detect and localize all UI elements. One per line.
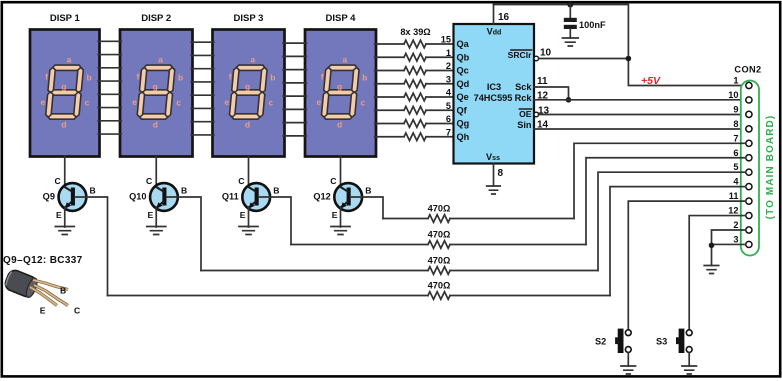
svg-text:S3: S3 [656, 337, 667, 347]
svg-text:B: B [60, 286, 66, 296]
svg-text:10: 10 [540, 48, 552, 59]
svg-text:DISP 1: DISP 1 [50, 13, 81, 24]
svg-text:c: c [85, 98, 90, 108]
svg-text:a: a [342, 55, 347, 65]
CON2 pin 10 circle and number [728, 90, 752, 103]
resistor 39 ohm in series with segment line Qb (pin 1) [375, 48, 454, 61]
transistor Q9 (BC337 NPN) [43, 176, 96, 220]
resistor 39 ohm in series with segment line Qc (pin 2) [375, 61, 454, 74]
svg-text:11: 11 [729, 191, 739, 201]
svg-text:Qd: Qd [457, 79, 470, 89]
wire CON2 pin 6 to riser x=586.0 [586, 158, 746, 245]
svg-text:470Ω: 470Ω [428, 281, 451, 291]
ground below capacitor [563, 38, 579, 46]
resistor 39 ohm in series with segment line Qa (pin 15) [375, 35, 454, 48]
ground below S2 [621, 366, 636, 374]
svg-text:Rck: Rck [515, 93, 533, 103]
svg-text:1: 1 [446, 48, 451, 58]
svg-text:C: C [330, 176, 336, 186]
svg-text:b: b [270, 73, 275, 83]
junction top rail / capacitor [567, 2, 573, 8]
svg-text:c: c [360, 98, 365, 108]
IC IC3 74HC595 shift register body [454, 24, 535, 164]
wire Rck pin 12 to CON2 pin 10 [534, 99, 746, 101]
svg-text:C: C [55, 176, 61, 186]
svg-text:c: c [176, 98, 181, 108]
wire CON2 pin 12 down to switch S3 [689, 216, 745, 330]
connector CON2 [734, 65, 761, 256]
7-segment display DISP 1 [30, 13, 100, 157]
svg-text:d: d [245, 120, 250, 130]
svg-text:e: e [316, 97, 321, 107]
svg-text:5: 5 [446, 101, 451, 111]
svg-text:2: 2 [446, 61, 451, 71]
svg-text:16: 16 [498, 12, 510, 23]
svg-text:Qg: Qg [457, 119, 470, 129]
wire DISP 3 common pin down to transistor collector [248, 157, 250, 188]
svg-text:Q9–Q12: BC337: Q9–Q12: BC337 [3, 255, 83, 266]
ground below Q9 [55, 227, 74, 235]
resistor 39 ohm in series with segment line Qh (pin 7) [375, 127, 454, 140]
svg-text:d: d [61, 120, 66, 130]
svg-text:a: a [158, 55, 163, 65]
transistor Q12 (BC337 NPN) [313, 176, 371, 220]
capacitor C 100nF [564, 5, 606, 39]
wire bus segment lines a-h between DISP2-DISP3 [191, 42, 214, 135]
wire CON2 pin 11 down to switch S2 [628, 201, 745, 330]
svg-text:6: 6 [733, 148, 738, 158]
svg-text:C: C [74, 306, 80, 316]
svg-text:4: 4 [733, 177, 739, 187]
svg-text:11: 11 [537, 76, 548, 87]
svg-text:470Ω: 470Ω [428, 230, 451, 240]
wire CON2 pin 5 to riser x=598.0 [598, 172, 746, 270]
wire Q12 base to 470 ohm row [351, 197, 383, 219]
wire CON2 pin 4 to riser x=610.0 [610, 187, 746, 296]
svg-text:15: 15 [441, 35, 451, 45]
svg-text:100nF: 100nF [579, 20, 606, 30]
svg-text:6: 6 [446, 114, 451, 124]
switch S2 (pushbutton) [595, 329, 631, 353]
svg-text:470Ω: 470Ω [428, 256, 451, 266]
CON2 pin 1 circle and number [733, 76, 752, 89]
svg-text:3: 3 [446, 74, 451, 84]
svg-text:Q11: Q11 [222, 192, 239, 202]
transistor Q11 (BC337 NPN) [222, 176, 280, 220]
svg-text:f: f [137, 72, 140, 82]
svg-text:Qf: Qf [457, 105, 468, 115]
ground below Q10 [147, 227, 166, 235]
wire S3 lower contact to ground [688, 352, 690, 366]
CON2 pin 8 circle and number [733, 119, 752, 132]
svg-text:g: g [153, 82, 158, 92]
svg-text:CON2: CON2 [734, 65, 761, 75]
svg-text:S2: S2 [595, 337, 606, 347]
svg-text:10: 10 [728, 90, 738, 100]
CON2 pin 4 circle and number [733, 177, 752, 190]
svg-text:c: c [268, 98, 273, 108]
svg-text:8: 8 [733, 119, 738, 129]
wire Q11 base to 470 ohm row [259, 197, 291, 245]
svg-text:b: b [178, 73, 183, 83]
svg-text:E: E [40, 306, 46, 316]
svg-text:DISP 2: DISP 2 [141, 13, 171, 24]
svg-text:8: 8 [498, 168, 504, 179]
svg-text:e: e [224, 97, 229, 107]
svg-text:b: b [362, 73, 367, 83]
svg-text:e: e [41, 97, 46, 107]
svg-text:1: 1 [733, 76, 738, 86]
svg-text:d: d [153, 120, 158, 130]
svg-text:74HC595: 74HC595 [474, 93, 513, 103]
CON2 pin 7 circle and number [733, 133, 752, 146]
CON2 pin 9 circle and number [733, 104, 752, 117]
svg-text:(TO MAIN BOARD): (TO MAIN BOARD) [765, 115, 776, 220]
svg-text:E: E [148, 210, 154, 220]
svg-text:2: 2 [733, 220, 738, 230]
svg-text:Q9: Q9 [43, 192, 55, 202]
ground below S3 [682, 366, 697, 374]
svg-text:g: g [61, 82, 66, 92]
wire DISP 4 common pin down to transistor collector [340, 157, 342, 188]
CON2 pin 11 circle and number [729, 191, 752, 204]
svg-text:5: 5 [733, 162, 738, 172]
svg-text:e: e [132, 97, 137, 107]
resistor 39 ohm in series with segment line Qf (pin 5) [375, 101, 454, 114]
svg-text:Qe: Qe [457, 92, 469, 102]
svg-text:Qa: Qa [457, 39, 470, 49]
resistor 39 ohm in series with segment line Qd (pin 3) [375, 74, 454, 87]
wire Q12 emitter to ground [340, 207, 342, 227]
svg-text:OE: OE [519, 109, 532, 119]
wire Q9 emitter to ground [64, 207, 66, 227]
resistor 39 ohm in series with segment line Qe (pin 4) [375, 88, 454, 101]
resistor 39 ohm in series with segment line Qg (pin 6) [375, 114, 454, 127]
svg-text:12: 12 [537, 91, 549, 102]
svg-text:B: B [365, 186, 371, 196]
svg-text:8x 39Ω: 8x 39Ω [400, 27, 430, 37]
CON2 pin 12 circle and number [728, 206, 752, 219]
resistor 470 ohm in base line of Q12 [383, 204, 574, 223]
junction +5V vertical / SRCLR wire [626, 56, 632, 62]
wire OE pin 13 to CON2 pin 9 [539, 114, 746, 116]
svg-text:14: 14 [537, 120, 549, 131]
CON2 pin 2 circle and number [733, 220, 752, 233]
svg-text:Qh: Qh [457, 132, 470, 142]
svg-text:a: a [67, 55, 72, 65]
transistor package drawing (TO-92 can with leads) [3, 268, 80, 315]
transistor Q10 (BC337 NPN) [129, 176, 187, 220]
svg-text:B: B [181, 186, 187, 196]
ground below CON2 pins 2,3 [704, 266, 719, 274]
svg-text:12: 12 [728, 206, 738, 216]
svg-text:C: C [238, 176, 244, 186]
junction pin2/pin3 [709, 243, 715, 249]
svg-text:f: f [229, 72, 232, 82]
svg-text:B: B [89, 186, 95, 196]
svg-text:d: d [337, 120, 342, 130]
svg-text:Qc: Qc [457, 66, 469, 76]
svg-text:Q12: Q12 [313, 192, 330, 202]
wire DISP 2 common pin down to transistor collector [155, 157, 157, 188]
svg-text:E: E [240, 210, 246, 220]
ground below IC3 Vss [487, 186, 501, 194]
7-segment display DISP 4 [305, 13, 376, 157]
wire CON2 pin 3 to ground [712, 244, 746, 265]
svg-text:4: 4 [446, 88, 452, 98]
resistor 470 ohm in base line of Q9 [108, 281, 611, 300]
svg-text:IC3: IC3 [487, 82, 501, 92]
wire Q11 emitter to ground [248, 207, 250, 227]
7-segment display DISP 3 [213, 13, 285, 157]
wire IC3 pin 8 Vss down to ground [493, 164, 495, 187]
resistor 470 ohm in base line of Q11 [291, 230, 586, 249]
svg-text:f: f [321, 72, 324, 82]
wire Sck pin 11 joins Rck line [534, 87, 569, 100]
svg-text:DISP 4: DISP 4 [326, 13, 357, 24]
CON2 pin 5 circle and number [733, 162, 752, 175]
CON2 pin 3 circle and number [733, 234, 752, 247]
wire CON2 pin 2 to ground junction [712, 230, 746, 245]
7-segment display DISP 2 [120, 13, 193, 157]
wire Q9 base to 470 ohm row [75, 197, 108, 296]
svg-text:Sin: Sin [517, 120, 532, 130]
wire SRCLR pin 10 to +5V rail [539, 58, 629, 60]
wire S2 lower contact to ground [627, 352, 629, 366]
wire Sin pin 14 to CON2 pin 8 [534, 128, 746, 130]
svg-text:3: 3 [733, 234, 738, 244]
svg-text:B: B [273, 186, 279, 196]
svg-text:a: a [250, 55, 255, 65]
wire Q10 emitter to ground [155, 207, 157, 227]
wire bus segment lines a-h between DISP3-DISP4 [283, 43, 306, 136]
svg-text:Qb: Qb [457, 52, 470, 62]
svg-text:E: E [56, 210, 62, 220]
svg-text:7: 7 [733, 133, 738, 143]
IC3 pin 10 SRCLR (active low) with inversion bubble [508, 50, 539, 61]
ground below Q11 [239, 227, 258, 235]
svg-text:C: C [146, 176, 152, 186]
IC3 pin 13 OE (active low) with inversion bubble [519, 109, 539, 119]
svg-text:f: f [45, 72, 48, 82]
svg-text:Q10: Q10 [129, 192, 146, 202]
switch S3 (pushbutton) [656, 329, 692, 353]
svg-text:+5V: +5V [641, 75, 661, 87]
svg-text:b: b [86, 73, 91, 83]
svg-text:DISP 3: DISP 3 [234, 13, 264, 24]
svg-text:g: g [337, 82, 342, 92]
wire IC3 pin 16 Vdd up to +5V rail [493, 5, 495, 25]
svg-text:SRClr: SRClr [508, 50, 533, 60]
wire +5V rail: Vdd top rail across to CON2 pin 1 [494, 5, 746, 86]
ground below Q12 [331, 227, 350, 235]
svg-text:E: E [332, 210, 338, 220]
svg-text:470Ω: 470Ω [428, 204, 451, 214]
CON2 pin 6 circle and number [733, 148, 752, 161]
wire DISP 1 common pin down to transistor collector [64, 157, 66, 188]
wire bus segment lines a-h between DISP1-DISP2 [98, 41, 121, 134]
wire Q10 base to 470 ohm row [166, 197, 201, 271]
svg-text:Sck: Sck [515, 82, 532, 92]
svg-text:13: 13 [538, 106, 550, 117]
resistor 470 ohm in base line of Q10 [201, 256, 598, 275]
svg-text:9: 9 [733, 104, 738, 114]
svg-text:7: 7 [446, 127, 451, 137]
svg-text:g: g [245, 82, 250, 92]
wire CON2 pin 7 to riser x=574.0 [574, 143, 746, 218]
junction Sck/Rck [566, 97, 572, 103]
